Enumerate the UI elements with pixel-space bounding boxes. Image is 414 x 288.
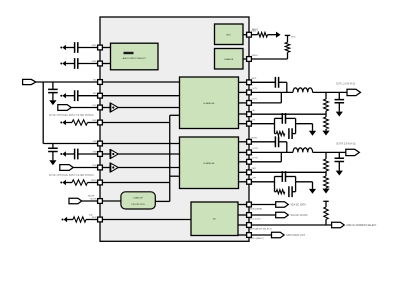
pin INL (left) <box>98 80 103 85</box>
wire bus elbow to pin row 143.5 <box>43 143 100 145</box>
wire inductor to output node <box>313 151 346 153</box>
wire control block stub y=204.5 <box>238 204 249 206</box>
svg-text:OUTL: OUTL <box>252 88 258 90</box>
wire row 219.5 into control block <box>100 219 191 221</box>
wire H-bridge L stub y=102.9 <box>239 102 250 104</box>
wire <box>86 219 100 221</box>
wire divider bottom ch2 <box>325 187 327 190</box>
ground comp2 <box>309 189 316 194</box>
svg-text:CHARGE: CHARGE <box>224 58 234 61</box>
wire MUTE row to start-up block <box>100 200 121 202</box>
block: bootstrap <box>215 24 244 45</box>
wire divider bottom <box>325 129 327 131</box>
node OUTR flag <box>346 149 360 155</box>
svg-text:OUT L 2.8 W (4 Ω): OUT L 2.8 W (4 Ω) <box>336 83 355 85</box>
wire upper branch <box>275 117 283 119</box>
wire control block stub y=235 <box>238 234 249 236</box>
wire divider top ch2 <box>325 152 327 159</box>
wire <box>78 47 100 49</box>
node flag row3 <box>58 105 71 111</box>
wire cap to ground <box>52 93 54 101</box>
resistor R1 <box>72 120 88 125</box>
svg-text:PROTECTION: PROTECTION <box>132 204 146 206</box>
wire R5 to row <box>287 52 289 59</box>
node flag SCL <box>276 212 289 218</box>
node input ref 1 <box>60 47 62 49</box>
wire row 154 to inverter <box>100 153 110 155</box>
wire C7 to SW elbow <box>279 81 287 83</box>
wire comp upper branch left ch2 <box>274 177 276 182</box>
node input ref 3 <box>60 95 62 97</box>
pin OUTL (right) <box>247 101 252 106</box>
wire H-bridge R stub y=161.8 <box>239 161 250 163</box>
wire C9 tap <box>338 92 340 99</box>
wire row 182.5 to internal bus <box>100 182 170 184</box>
block: H-bridge right U1B <box>180 137 239 189</box>
wire upper branch right ch2 <box>286 176 296 178</box>
wire lower branch ch2 <box>275 191 277 193</box>
power tap bar <box>285 34 290 36</box>
pin INN1 (left) <box>98 61 103 66</box>
wire row 59 to pin <box>249 58 288 60</box>
wire <box>66 182 72 184</box>
pin OUTL (right) <box>247 90 252 95</box>
svg-text:BST: BST <box>227 34 232 36</box>
wire SCL row <box>249 214 276 216</box>
svg-text:AUDIO INPUT SELECT: AUDIO INPUT SELECT <box>123 57 147 60</box>
resistor R10 <box>324 176 329 188</box>
wire <box>73 167 100 169</box>
wire SW row to inductor <box>249 91 293 93</box>
block: input bias/select <box>111 43 159 70</box>
capacitor C2 <box>75 58 78 69</box>
resistor R2 <box>72 180 88 185</box>
svg-text:SDA I2C DATA: SDA I2C DATA <box>291 204 307 207</box>
node flag SDA <box>276 202 289 208</box>
wire <box>78 95 100 97</box>
pin BSTL (right) <box>247 80 252 85</box>
svg-text:OUTL: OUTL <box>252 99 258 101</box>
pin VREG (right) <box>247 57 252 62</box>
block: H-bridge left U1A <box>180 77 239 129</box>
wire SW row to inductor <box>249 151 293 153</box>
pin CPL (right) <box>247 121 252 126</box>
capacitor C8 <box>282 113 285 124</box>
node INL input flag <box>23 79 36 84</box>
wire comp lower branch left <box>274 124 276 134</box>
wire <box>66 122 72 124</box>
wire row 95.7 into H-bridge L <box>100 95 180 97</box>
svg-text:OUT R 2.8 W (4 Ω): OUT R 2.8 W (4 Ω) <box>336 143 356 145</box>
capacitor C1 <box>75 42 78 53</box>
ground divider1 <box>322 131 329 136</box>
wire lower branch right <box>292 133 296 135</box>
wire pin1 to input block <box>100 47 111 49</box>
svg-text:INR: INR <box>93 141 97 143</box>
wire shunt tap ch1 <box>52 82 54 89</box>
wire comp upper branch left <box>274 118 276 123</box>
capacitor C14 <box>289 186 292 197</box>
wire divider mid ch2 <box>325 171 327 176</box>
wire cap to ground <box>52 152 54 161</box>
wire INL to pin <box>36 81 100 83</box>
pin ADR (right) <box>247 223 252 228</box>
wire divider top <box>325 92 327 99</box>
pin ADR (left) <box>98 217 103 222</box>
wire C13 tap <box>338 152 340 158</box>
pin GPIO (right) <box>247 233 252 238</box>
pin REF (left) <box>98 120 103 125</box>
node signal out arrow <box>276 32 281 38</box>
pin OUTR (right) <box>247 150 252 155</box>
svg-text:VDD: VDD <box>291 37 296 39</box>
resistor R11 <box>276 190 284 194</box>
block: start-up protection (rounded) <box>121 192 155 209</box>
resistor R3 <box>73 217 86 222</box>
node OUTL flag <box>347 89 361 95</box>
node flag GPIO <box>272 232 285 238</box>
svg-text:REF: REF <box>92 120 97 122</box>
svg-text:H-BRIDGE: H-BRIDGE <box>204 103 215 105</box>
pin INR (left) <box>98 141 103 146</box>
wire pin2 to input block <box>100 63 111 65</box>
wire BST2 row <box>249 141 275 143</box>
node input ref 2 <box>60 63 62 65</box>
wire upper branch ch2 <box>275 176 283 178</box>
svg-text:GPIO FAULT OUT: GPIO FAULT OUT <box>286 234 305 237</box>
wire comp lower branch left ch2 <box>274 182 276 192</box>
wire bootstrap block to pin <box>243 34 249 36</box>
svg-text:ADR I2C ADDRESS SELECT: ADR I2C ADDRESS SELECT <box>346 224 377 227</box>
wire <box>82 200 100 202</box>
svg-text:ADR (ADDR SELECT): ADR (ADDR SELECT) <box>250 227 272 230</box>
wire inductor to output node <box>313 91 347 93</box>
wire comp row to ground elbow <box>296 123 313 125</box>
wire row 122.5 to internal bus <box>100 122 170 124</box>
block: I2C control <box>191 202 238 236</box>
wire H-bridge R stub y=181.8 <box>239 181 250 183</box>
wire divider mid <box>325 111 327 117</box>
resistor R9 <box>324 159 329 171</box>
svg-text:INP: INP <box>93 93 97 95</box>
svg-text:I2C: I2C <box>213 219 217 221</box>
svg-text:FBR: FBR <box>252 168 257 170</box>
wire pin to R4 <box>249 34 258 36</box>
resistor R5 <box>285 42 290 52</box>
logo mark inside input block <box>124 52 134 54</box>
resistor R8 <box>276 132 284 136</box>
capacitor C7 bootstrap <box>275 77 278 88</box>
svg-text:MUTE: MUTE <box>88 196 95 198</box>
node input ref 7 <box>62 219 64 221</box>
node flag row7 <box>60 165 73 171</box>
wire regulator block to pin <box>243 58 249 60</box>
capacitor C3 <box>48 89 58 92</box>
wire <box>78 153 100 155</box>
wire internal vertical bus <box>169 115 171 201</box>
svg-text:BSTL: BSTL <box>252 78 258 80</box>
wire SW2 row <box>249 102 281 104</box>
node input ref 6 <box>60 182 62 184</box>
svg-text:VREG: VREG <box>252 55 258 57</box>
ground divider2 <box>322 189 329 194</box>
ground comp1 <box>309 131 316 136</box>
wire FB1 row <box>249 113 326 115</box>
wire comp row to ground elbow ch2 <box>296 181 313 183</box>
svg-text:BSTR: BSTR <box>252 138 258 140</box>
wire <box>66 63 75 65</box>
svg-text:NOTE: OPTIONAL INPUT FILTER SH: NOTE: OPTIONAL INPUT FILTER SHOWN <box>49 174 94 177</box>
wire row 167.5 to inverter <box>100 167 110 169</box>
wire SDA row <box>249 204 276 206</box>
wire inverter A2 output into H-bridge R <box>118 153 179 155</box>
wire <box>66 153 75 155</box>
wire SW2 row <box>249 161 281 163</box>
wire H-bridge R stub y=152.4 <box>239 151 250 153</box>
wire inverter A3 output into H-bridge R <box>118 167 179 169</box>
svg-text:ADR: ADR <box>92 216 97 219</box>
svg-text:PVR: PVR <box>92 165 97 167</box>
wire GPIO row <box>249 234 272 236</box>
svg-text:SDA (DATA): SDA (DATA) <box>250 207 262 210</box>
pin INP (left) <box>98 93 103 98</box>
wire C9 to ground <box>338 103 340 112</box>
wire C11 to SW elbow <box>279 141 287 143</box>
wire shunt tap ch2 <box>52 144 54 149</box>
wire comp row <box>249 123 275 125</box>
svg-text:NOTE: OPTIONAL INPUT FILTER SH: NOTE: OPTIONAL INPUT FILTER SHOWN <box>49 114 94 117</box>
ground C13 <box>336 171 343 176</box>
wire comp row ch2 <box>249 181 275 183</box>
svg-text:CPR: CPR <box>252 178 257 180</box>
wire bus stub into H-bridge L <box>170 114 180 116</box>
wire lower branch up ch2 <box>295 182 297 192</box>
pin SCL (right) <box>247 213 252 218</box>
svg-text:SCL I2C CLOCK: SCL I2C CLOCK <box>291 215 309 217</box>
svg-text:MUTE: MUTE <box>91 198 98 200</box>
svg-text:FAULT: FAULT <box>252 30 259 33</box>
wire row 143.5 into H-bridge R <box>100 143 180 145</box>
wire bus stub into H-bridge R <box>170 175 180 177</box>
wire pull-up tap <box>325 201 327 207</box>
wire elbow down to SW row <box>286 82 288 92</box>
pin INP1 (left) <box>98 45 103 50</box>
resistor R7 <box>324 117 329 129</box>
wire row 107.5 to inverter <box>100 107 110 109</box>
wire tap down <box>287 35 289 42</box>
op-amp A1 <box>109 103 111 113</box>
wire SW2 up join <box>280 92 282 103</box>
wire inverter A1 output into H-bridge L <box>118 107 179 109</box>
wire INL row into H-bridge L <box>100 81 180 83</box>
wire <box>66 95 75 97</box>
node input ref 5 <box>60 153 62 155</box>
resistor R6 <box>324 99 329 111</box>
wire R12 to ADR row <box>325 219 327 225</box>
wire control block stub y=225 <box>238 224 249 226</box>
svg-text:REF2: REF2 <box>91 180 97 182</box>
svg-text:START-UP: START-UP <box>133 197 143 200</box>
pin MUTE (left) <box>98 199 103 204</box>
wire <box>88 182 101 184</box>
resistor R4 <box>258 32 268 37</box>
svg-text:SCL (CLK): SCL (CLK) <box>250 219 261 221</box>
wire BST1 row <box>249 81 275 83</box>
svg-text:OUTR: OUTR <box>252 148 258 150</box>
wire control block stub y=215 <box>238 214 249 216</box>
pin REF2 (left) <box>98 180 103 185</box>
svg-text:INN1: INN1 <box>92 61 98 63</box>
wire elbow down to SW row <box>286 142 288 153</box>
wire H-bridge L stub y=82.3 <box>239 81 250 83</box>
wire bus elbow to start-up block <box>155 200 169 202</box>
wire H-bridge L stub y=114 <box>239 113 250 115</box>
inductor L1 <box>293 88 313 93</box>
wire H-bridge R stub y=172.3 <box>239 171 250 173</box>
wire C13 to ground <box>338 162 340 171</box>
svg-text:OUTR: OUTR <box>252 158 258 160</box>
pin SDA (right) <box>247 202 252 207</box>
block: regulator <box>215 49 244 70</box>
capacitor C13 <box>335 158 345 161</box>
wire upper branch right <box>286 117 296 119</box>
ground <box>49 160 56 165</box>
capacitor C10 <box>289 128 292 139</box>
pin PVR (left) <box>98 165 103 170</box>
wire H-bridge R stub y=141.8 <box>239 141 250 143</box>
op-amp A2 <box>109 149 111 159</box>
pin OUTR (right) <box>247 159 252 164</box>
wire <box>67 219 73 221</box>
pin INN (left) <box>98 152 103 157</box>
capacitor C12 <box>282 171 285 182</box>
wire <box>66 47 75 49</box>
wire lower branch right ch2 <box>292 191 296 193</box>
capacitor C9 <box>335 100 345 103</box>
wire <box>88 122 101 124</box>
node input ref 4 <box>60 122 62 124</box>
wire <box>71 107 100 109</box>
capacitor C11 bootstrap <box>275 136 278 147</box>
IC U1 body outline <box>100 17 249 241</box>
wire comp ground drop ch2 <box>312 182 314 189</box>
ground <box>49 100 56 105</box>
wire input bus down <box>42 82 44 144</box>
capacitor C4 <box>75 90 78 101</box>
wire H-bridge L stub y=92.4 <box>239 91 250 93</box>
ground C9 <box>336 112 343 117</box>
wire <box>78 63 100 65</box>
wire lower branch <box>275 133 277 135</box>
svg-text:H-BRIDGE: H-BRIDGE <box>204 163 215 165</box>
wire lower branch up <box>295 124 297 134</box>
pin FBR (right) <box>247 170 252 175</box>
wire upper branch down <box>295 118 297 123</box>
resistor R12 <box>324 207 328 219</box>
wire ADR row <box>249 224 332 226</box>
svg-text:INN: INN <box>93 151 97 153</box>
pin CPR (right) <box>247 179 252 184</box>
pin FBL (right) <box>247 112 252 117</box>
inductor L2 <box>293 148 313 153</box>
op-amp A3 <box>109 163 111 173</box>
capacitor C5 <box>48 148 58 151</box>
capacitor C6 <box>75 149 78 160</box>
node flag MUTE <box>69 198 82 204</box>
svg-text:GPIO (FAULT): GPIO (FAULT) <box>250 237 264 240</box>
wire upper branch down ch2 <box>295 177 297 182</box>
pin BSTR (right) <box>247 139 252 144</box>
pin PVL (left) <box>98 105 103 110</box>
wire SW2 up join <box>280 152 282 161</box>
node flag ADR <box>332 222 345 228</box>
wire H-bridge L stub y=123.7 <box>239 123 250 125</box>
wire FB2 row <box>249 171 326 173</box>
power tap bar pull-up <box>323 200 328 202</box>
wire R4 to arrow <box>268 34 277 36</box>
pin FAULT (right) <box>247 32 252 37</box>
wire comp ground drop <box>312 124 314 131</box>
